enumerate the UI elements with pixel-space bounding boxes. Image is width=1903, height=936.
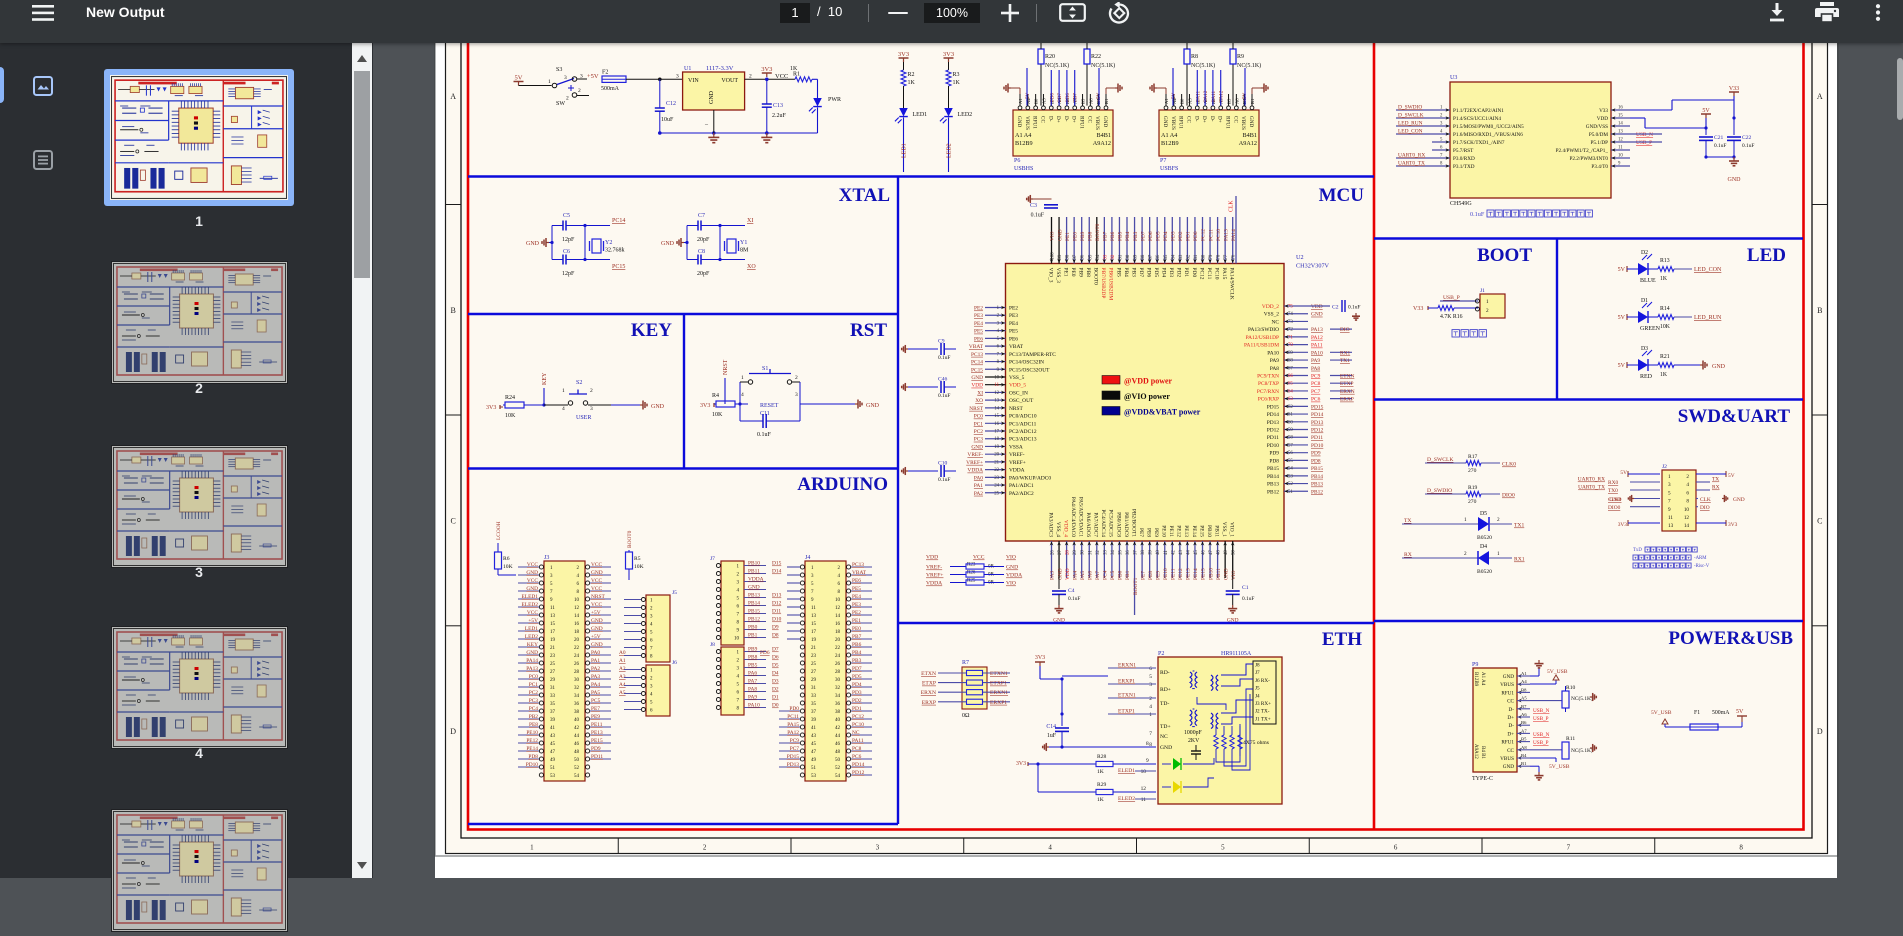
svg-text:A1 A4: A1 A4 [1161,132,1177,139]
svg-text:VDDA: VDDA [748,577,764,583]
svg-text:37: 37 [1134,550,1139,555]
svg-text:A5: A5 [1041,98,1046,104]
svg-text:17: 17 [811,630,817,635]
svg-text:VIO: VIO [1006,581,1016,587]
svg-text:12pF: 12pF [562,271,575,277]
svg-text:PC8/TXP: PC8/TXP [1258,381,1279,387]
svg-text:A9A12: A9A12 [1473,744,1478,759]
zoom in [1001,4,1019,22]
svg-text:PA9: PA9 [748,695,757,701]
svg-text:17: 17 [550,630,556,635]
svg-text:6: 6 [1686,490,1689,496]
svg-text:PB10: PB10 [1206,525,1212,537]
svg-text:GND: GND [1053,618,1065,624]
download icon [1765,3,1789,22]
svg-text:500mA: 500mA [601,86,620,92]
blue divider ARDUINO top [468,467,898,469]
svg-text:D-: D- [1509,723,1515,729]
svg-text:63: 63 [1288,397,1293,402]
svg-text:GND: GND [526,650,538,656]
svg-text:D5: D5 [772,663,779,669]
svg-text:74: 74 [1288,312,1293,317]
svg-text:PC6/RXP: PC6/RXP [1258,397,1279,403]
svg-text:PA12/USB1DP: PA12/USB1DP [1246,335,1279,341]
svg-text:D-: D- [1209,116,1215,122]
svg-text:16: 16 [835,622,841,627]
svg-text:5V: 5V [1618,363,1626,369]
svg-text:38: 38 [1141,550,1146,555]
svg-text:B12B9: B12B9 [1015,140,1033,147]
svg-text:ERXP1: ERXP1 [990,700,1007,706]
svg-text:50: 50 [1232,550,1237,555]
svg-text:0.1uF: 0.1uF [1714,143,1726,149]
svg-text:23: 23 [811,654,817,659]
frame row letters [446,204,462,206]
svg-text:49: 49 [811,758,817,763]
svg-text:NC(5.1K): NC(5.1K) [1571,747,1593,754]
svg-text:PE1: PE1 [852,618,861,624]
svg-text:VSS_2: VSS_2 [1264,312,1280,318]
svg-text:USB_P: USB_P [1443,295,1460,301]
svg-text:-Risc-V: -Risc-V [1694,564,1710,569]
ground left of P7 [1165,88,1167,94]
svg-text:42: 42 [574,726,580,731]
svg-text:RED: RED [1640,374,1653,380]
svg-text:51: 51 [1288,490,1293,495]
svg-text:VBUS: VBUS [1170,116,1176,130]
svg-text:15: 15 [1618,114,1623,119]
svg-text:VDDA: VDDA [1006,573,1022,579]
svg-text:LED_CON: LED_CON [1694,267,1722,273]
svg-text:R26: R26 [967,571,976,576]
power rail 5V [514,81,524,83]
svg-text:7: 7 [1149,731,1152,737]
svg-text:PD1: PD1 [1186,231,1192,241]
svg-text:10: 10 [1141,769,1147,775]
svg-text:PE13: PE13 [1183,525,1189,537]
svg-text:58: 58 [1288,436,1293,441]
svg-text:J7: J7 [710,556,715,562]
svg-text:3: 3 [1149,682,1152,688]
svg-text:PA14: PA14 [526,658,538,664]
svg-text:LED1: LED1 [913,112,928,118]
svg-text:VREF+: VREF+ [926,573,943,579]
svg-text:TX1: TX1 [1340,358,1350,364]
svg-text:54: 54 [835,774,841,779]
svg-text:D-: D- [1193,116,1199,122]
svg-text:PB1: PB1 [748,633,758,639]
svg-text:@VIO power: @VIO power [1124,392,1170,401]
svg-text:PE0: PE0 [852,626,861,632]
svg-text:P2.2/PWM3/INT0: P2.2/PWM3/INT0 [1570,156,1609,162]
svg-text:35: 35 [1118,550,1123,555]
svg-text:D0: D0 [772,703,779,709]
svg-text:PB9: PB9 [1080,231,1086,241]
svg-text:VREF+: VREF+ [966,460,983,466]
svg-text:PB4: PB4 [1123,268,1129,278]
svg-text:4.7K R16: 4.7K R16 [1440,314,1463,320]
svg-text:92: 92 [1111,254,1116,259]
svg-text:29: 29 [811,678,817,683]
svg-text:R22: R22 [1091,54,1101,60]
svg-text:12: 12 [1684,515,1690,521]
capacitor C9 0.1uF [905,348,908,350]
svg-text:GND: GND [591,626,603,632]
svg-text:RD+: RD+ [1160,687,1171,693]
svg-text:PA12: PA12 [787,730,799,736]
svg-text:3: 3 [876,844,880,852]
svg-text:PB4: PB4 [1125,231,1131,241]
svg-text:0.1uF: 0.1uF [1068,596,1080,602]
svg-text:20pF: 20pF [697,237,710,243]
svg-text:J1: J1 [1480,288,1485,294]
svg-text:C1: C1 [1242,585,1249,591]
svg-text:PC13/TAMPER-RTC: PC13/TAMPER-RTC [1009,352,1056,358]
svg-text:PE6: PE6 [1009,336,1018,342]
svg-text:ERXN: ERXN [1340,389,1355,395]
svg-text:GND: GND [748,585,760,591]
svg-text:U1: U1 [684,66,691,72]
sheet border frame [446,20,1828,854]
svg-text:4: 4 [1048,844,1052,852]
svg-text:34: 34 [574,694,580,699]
svg-text:S3: S3 [556,67,562,73]
svg-text:GND: GND [1311,312,1323,318]
svg-text:270: 270 [1468,499,1477,505]
svg-text:PE9: PE9 [1155,571,1161,580]
svg-text:11: 11 [550,606,555,611]
ground C1 [1232,605,1234,609]
svg-text:4: 4 [741,392,744,398]
svg-text:XI: XI [747,218,753,224]
svg-text:26: 26 [1051,550,1056,555]
svg-text:ETXP1: ETXP1 [990,681,1007,687]
svg-text:USBFS: USBFS [1160,166,1178,172]
svg-text:93: 93 [1103,254,1108,259]
ground right of P6 [1105,88,1107,94]
svg-text:PA5: PA5 [1080,571,1086,580]
svg-text:PD11: PD11 [1311,435,1323,441]
led LED2 [944,108,953,117]
svg-text:13: 13 [811,614,817,619]
svg-text:32: 32 [835,686,841,691]
svg-text:3: 3 [590,406,593,412]
svg-text:GND: GND [709,90,715,104]
svg-text:TX0: TX0 [1608,488,1618,494]
svg-text:39: 39 [811,718,817,723]
svg-text:PC14: PC14 [971,360,983,366]
svg-text:CLK0: CLK0 [1502,462,1516,468]
svg-text:50: 50 [574,758,580,763]
svg-text:3V3: 3V3 [761,66,772,73]
P2 transformer 1 [1190,672,1192,688]
svg-text:NC(5.1K): NC(5.1K) [1237,62,1261,69]
svg-text:P1.5/MOSI/PWM0_/UCC2/AIN5: P1.5/MOSI/PWM0_/UCC2/AIN5 [1453,124,1524,130]
svg-text:PB8: PB8 [748,655,758,661]
svg-text:24: 24 [994,484,999,489]
svg-text:PD2: PD2 [852,698,862,704]
svg-text:PC5: PC5 [1110,570,1116,580]
svg-text:LED_RUN: LED_RUN [1694,315,1722,321]
svg-text:41: 41 [811,726,817,731]
svg-text:ARDUINO: ARDUINO [797,474,888,495]
svg-text:U2: U2 [1296,254,1304,261]
svg-text:PE8: PE8 [529,722,538,728]
svg-text:PA8: PA8 [1270,366,1279,372]
svg-text:VDD_4: VDD_4 [1062,520,1068,537]
svg-text:PA10: PA10 [1267,350,1279,356]
svg-text:R8: R8 [1191,54,1198,60]
svg-text:88: 88 [1141,254,1146,259]
svg-text:PD13: PD13 [1311,420,1324,426]
svg-text:15: 15 [550,622,556,627]
main scrollbar thumb [1897,58,1903,120]
svg-text:PC7: PC7 [790,746,800,752]
svg-text:PE14: PE14 [1193,568,1199,580]
svg-text:5V: 5V [1618,267,1626,273]
svg-text:PE15: PE15 [1198,525,1204,537]
svg-text:10K: 10K [503,564,513,570]
svg-text:3: 3 [564,75,567,81]
print icon [1815,2,1839,23]
svg-text:PB2/BOOT1: PB2/BOOT1 [1130,509,1136,537]
svg-text:LED_RUN: LED_RUN [1398,121,1423,127]
svg-text:VDDA: VDDA [1009,468,1025,474]
svg-text:10uF: 10uF [661,117,674,123]
svg-text:PC13: PC13 [971,352,983,358]
svg-text:VDD: VDD [1065,568,1071,580]
svg-text:500mA: 500mA [1712,710,1730,716]
svg-text:D+: D+ [1217,116,1223,123]
svg-text:12: 12 [574,606,580,611]
page number box [780,3,810,23]
svg-text:PD12: PD12 [1311,428,1324,434]
svg-text:14: 14 [574,614,580,619]
svg-text:A: A [1817,92,1823,101]
svg-text:ERXP1: ERXP1 [1118,679,1135,685]
svg-text:VREF+: VREF+ [1009,460,1026,466]
blue divider top power section bottom [468,175,1374,177]
svg-text:10K: 10K [634,564,644,570]
svg-text:PB3: PB3 [1133,231,1139,241]
svg-text:PA15: PA15 [787,722,799,728]
svg-text:P2: P2 [1158,651,1164,657]
svg-text:GND: GND [971,375,983,381]
svg-text:41: 41 [550,726,556,731]
svg-text:GND: GND [591,570,603,576]
svg-text:GND: GND [651,404,665,410]
ground C2 [1355,313,1357,316]
svg-text:24: 24 [574,654,580,659]
svg-text:PA11: PA11 [852,738,864,744]
svg-text:PC10: PC10 [852,722,864,728]
svg-text:1: 1 [741,375,744,381]
svg-text:1: 1 [1486,299,1489,305]
svg-text:D_SWCLK: D_SWCLK [1427,457,1453,463]
svg-text:R6: R6 [503,556,510,562]
svg-text:PB15: PB15 [748,609,760,615]
svg-text:A: A [450,92,456,101]
svg-text:D: D [450,727,456,736]
svg-text:3: 3 [1668,482,1671,488]
svg-text:PA8: PA8 [748,687,757,693]
svg-text:B1: B1 [1521,761,1527,766]
svg-text:1K: 1K [1660,372,1668,378]
capacitor C21 0.1uF [1705,128,1707,135]
svg-text:VBUS: VBUS [1240,116,1246,130]
blue divider KEY RST [683,314,685,469]
svg-text:GND: GND [1016,116,1022,127]
svg-text:PC9: PC9 [1311,373,1321,379]
svg-text:P1.6/MISO/RXD1_/VBUS/AIN6: P1.6/MISO/RXD1_/VBUS/AIN6 [1453,132,1523,138]
svg-text:PD1: PD1 [1183,268,1189,278]
net PC14 [585,225,610,227]
P2 led wires [1183,758,1214,764]
svg-text:PC10: PC10 [1216,229,1222,241]
svg-text:PD3: PD3 [1171,231,1177,241]
svg-text:VCC: VCC [591,578,602,584]
svg-text:PB10: PB10 [748,561,760,567]
wire gnd rail [1706,156,1734,158]
svg-text:ERXN1: ERXN1 [1118,663,1136,669]
svg-text:50: 50 [835,758,841,763]
svg-text:78: 78 [1217,254,1222,259]
svg-text:ETXN1: ETXN1 [990,671,1008,677]
svg-text:10K: 10K [1660,324,1671,330]
svg-text:PA11: PA11 [1311,343,1323,349]
more options kebab [1874,4,1882,21]
svg-text:1K: 1K [908,80,916,86]
svg-text:PD12: PD12 [1267,428,1280,434]
svg-text:PE4: PE4 [1009,321,1018,327]
svg-text:PA12: PA12 [1203,90,1209,102]
svg-text:PB1/ADC9: PB1/ADC9 [1123,512,1129,537]
svg-text:PB4: PB4 [852,650,862,656]
svg-text:ETXP: ETXP [922,681,936,687]
svg-text:96: 96 [1081,254,1086,259]
svg-text:PE11: PE11 [591,722,603,728]
svg-text:20: 20 [574,638,580,643]
svg-text:1K: 1K [1660,276,1668,282]
svg-text:KEY: KEY [527,642,538,648]
svg-text:P1.7/SCK/TXD1_/AIN7: P1.7/SCK/TXD1_/AIN7 [1453,140,1505,146]
svg-text:NC: NC [1160,734,1168,740]
P2 jack pin box [1253,661,1276,724]
svg-text:PE14: PE14 [526,746,538,752]
svg-text:PC8: PC8 [1311,381,1321,387]
svg-text:PE8: PE8 [1145,528,1151,537]
svg-text:PA15: PA15 [1221,268,1227,280]
svg-text:VBAT: VBAT [852,570,867,576]
svg-text:PC9/TXN: PC9/TXN [1257,373,1279,379]
svg-text:ETH: ETH [1322,629,1362,650]
svg-text:1117-3.3V: 1117-3.3V [706,65,734,72]
led column LED1 [899,57,909,59]
svg-text:C9: C9 [938,339,945,345]
svg-text:5: 5 [1668,490,1671,496]
svg-text:GND: GND [526,570,538,576]
svg-text:3V3: 3V3 [486,405,496,411]
svg-text:24: 24 [835,654,841,659]
svg-text:R9: R9 [1237,54,1244,60]
svg-text:PC11: PC11 [1206,268,1212,280]
svg-text:PD0: PD0 [1191,268,1197,278]
svg-text:PD13: PD13 [1267,420,1280,426]
svg-text:PD0: PD0 [789,706,799,712]
svg-text:47: 47 [1209,550,1214,555]
svg-text:J7: J7 [1255,670,1260,676]
svg-text:PD14: PD14 [1267,412,1280,418]
svg-text:3V3: 3V3 [1618,522,1628,528]
svg-text:CC: CC [1086,116,1092,123]
svg-text:2: 2 [578,88,581,94]
svg-text:PD12: PD12 [852,770,865,776]
left rail [551,226,553,260]
svg-text:PB15: PB15 [1311,466,1323,472]
svg-text:PE7: PE7 [1138,528,1144,537]
svg-text:ELED2: ELED2 [522,602,539,608]
svg-text:DIO0: DIO0 [1502,493,1515,499]
svg-text:PB11: PB11 [1216,568,1222,580]
svg-text:BOOT1: BOOT1 [1133,577,1139,595]
svg-text:85: 85 [1164,254,1169,259]
svg-text:PE0: PE0 [1072,232,1078,241]
svg-text:USB_N: USB_N [1533,732,1550,738]
svg-text:35: 35 [811,702,817,707]
svg-text:PB15: PB15 [1267,466,1279,472]
svg-text:A1 A4: A1 A4 [1015,132,1031,139]
svg-text:D11: D11 [772,609,781,615]
svg-text:22: 22 [574,646,580,651]
svg-text:30: 30 [1081,550,1086,555]
svg-text:VCC: VCC [527,610,538,616]
svg-text:12: 12 [1141,786,1147,792]
svg-text:PE15: PE15 [591,738,603,744]
svg-text:GND: GND [1503,674,1514,680]
svg-text:20: 20 [994,453,999,458]
svg-text:J3 RX+: J3 RX+ [1255,701,1271,707]
wire U1 GND [713,110,715,133]
ground KEY [640,404,643,406]
svg-text:21: 21 [811,646,817,651]
capacitor C13 2.2uF [766,79,768,104]
svg-text:72: 72 [1288,328,1293,333]
svg-text:47: 47 [811,750,817,755]
svg-text:30: 30 [574,678,580,683]
svg-text:D2: D2 [1641,250,1648,256]
capacitor C1 0.1uF [1232,578,1234,589]
svg-text:PE14: PE14 [1191,525,1197,537]
svg-text:PB11: PB11 [1213,525,1219,537]
svg-text:PD9: PD9 [1269,451,1279,457]
svg-text:ELED1: ELED1 [1118,768,1135,774]
svg-text:RFU1: RFU1 [1079,116,1085,129]
svg-text:37: 37 [550,710,556,715]
svg-text:R17: R17 [1468,454,1478,460]
svg-text:BLUE: BLUE [1640,278,1656,284]
svg-text:2: 2 [1486,308,1489,314]
svg-text:UART0_TX: UART0_TX [1578,485,1605,491]
svg-text:10K: 10K [505,413,516,419]
svg-text:45: 45 [1194,550,1199,555]
svg-text:2: 2 [1149,696,1152,702]
svg-text:A8: A8 [1234,98,1239,104]
ground right of P7 [1251,88,1253,94]
svg-text:PD10: PD10 [1267,443,1280,449]
svg-text:PC6: PC6 [1311,397,1321,403]
svg-text:PA9: PA9 [1311,358,1320,364]
svg-text:PA9: PA9 [1270,358,1279,364]
